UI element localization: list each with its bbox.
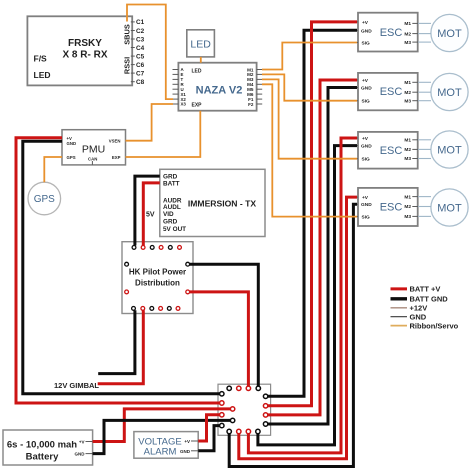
pin ticks NAZA left A,E,T,R,U,X1,X2,X3	[173, 70, 179, 105]
LED box	[187, 30, 215, 57]
svg-text:EXP: EXP	[192, 103, 203, 109]
wire ESC4 GND black to hub bottom	[229, 204, 357, 466]
svg-text:+V: +V	[362, 20, 369, 26]
svg-text:Distribution: Distribution	[135, 279, 180, 288]
wire voltage alarm +V red to hub	[198, 415, 220, 441]
pin CAN tick	[91, 161, 93, 165]
svg-text:M1: M1	[404, 80, 411, 86]
motor leads ESC4 to MOT4	[418, 197, 431, 217]
hub pads top row	[227, 386, 260, 390]
svg-text:C7: C7	[136, 70, 145, 77]
wire NAZA EXP orange to PMU EXP	[126, 111, 201, 157]
svg-text:F2: F2	[248, 102, 254, 107]
svg-text:C1: C1	[136, 19, 145, 26]
svg-text:GPS: GPS	[67, 155, 76, 160]
svg-text:GRD: GRD	[163, 218, 178, 225]
svg-text:GPS: GPS	[34, 194, 55, 205]
svg-text:ESC: ESC	[380, 202, 403, 214]
svg-text:+V: +V	[362, 136, 369, 142]
legend swatch +12V	[391, 307, 408, 309]
wire ESC4 +V red to hub bottom	[239, 197, 357, 459]
wire PMU VSEN orange to NAZA X3	[126, 104, 174, 141]
svg-text:GND: GND	[361, 144, 372, 150]
hub pads bottom row	[227, 429, 260, 433]
power management unit PMU	[62, 130, 126, 165]
wire SBUS orange FRSKY to NAZA X2	[127, 5, 173, 100]
svg-text:C2: C2	[136, 28, 145, 35]
wire ESC1 GND black to hub right	[268, 30, 357, 396]
wire voltage alarm GND black to hub	[198, 426, 220, 451]
svg-text:SIG: SIG	[362, 157, 371, 163]
svg-text:LED: LED	[192, 69, 202, 75]
svg-text:12V GIMBAL: 12V GIMBAL	[54, 381, 99, 390]
wire PMU GND black to hub left	[23, 141, 220, 393]
ESC 4	[358, 188, 418, 226]
wire ESC3 GND black to hub bottom	[258, 146, 357, 445]
svg-text:SBUS: SBUS	[123, 24, 132, 45]
hub pads inner left	[230, 407, 234, 423]
wire battery +V red to hub inner pin	[93, 409, 231, 442]
svg-text:ESC: ESC	[380, 27, 403, 39]
svg-text:ESC: ESC	[380, 86, 403, 98]
svg-text:VSEN: VSEN	[109, 139, 121, 144]
svg-text:C3: C3	[136, 36, 145, 43]
wire HK board black to 12V gimbal	[98, 310, 135, 373]
svg-text:VID: VID	[163, 211, 174, 218]
svg-text:Battery: Battery	[26, 452, 59, 463]
wire HK board red to 12V gimbal	[98, 310, 144, 383]
battery 6s 10000mah	[3, 430, 93, 465]
NAZA left pin labels	[181, 67, 187, 107]
svg-text:CAN: CAN	[88, 157, 97, 162]
pin ticks NAZA right M1-M6,F1,F2	[257, 70, 263, 105]
svg-text:+V: +V	[362, 195, 369, 201]
power hub block	[218, 384, 271, 435]
svg-text:SIG: SIG	[362, 215, 371, 221]
svg-text:M1: M1	[404, 21, 411, 27]
svg-text:M3: M3	[404, 98, 411, 104]
svg-text:+V: +V	[184, 439, 190, 444]
svg-text:BATT: BATT	[163, 180, 180, 187]
svg-text:C4: C4	[136, 45, 145, 52]
ESC 1	[358, 13, 418, 52]
svg-text:ESC: ESC	[380, 145, 403, 157]
motor MOT 1	[431, 14, 468, 51]
svg-text:MOT: MOT	[437, 203, 462, 215]
svg-text:MOT: MOT	[437, 145, 462, 157]
svg-text:FRSKY: FRSKY	[68, 38, 102, 49]
motor leads ESC3 to MOT3	[418, 140, 431, 159]
svg-text:+V: +V	[79, 440, 85, 445]
NAZA right pin labels	[247, 67, 254, 107]
svg-text:GND: GND	[67, 141, 77, 146]
legend swatch Ribbon/Servo	[391, 325, 408, 327]
ESC 2	[358, 73, 418, 110]
svg-text:SIG: SIG	[362, 40, 371, 46]
svg-text:IMMERSION - TX: IMMERSION - TX	[188, 199, 257, 209]
svg-text:C8: C8	[136, 79, 145, 86]
flight controller NAZA V2	[178, 63, 256, 111]
svg-text:5V: 5V	[146, 212, 155, 219]
svg-text:LED: LED	[190, 39, 211, 51]
wire PMU +V red to hub left	[16, 138, 220, 403]
HK board pads right	[186, 262, 190, 293]
hub pads left column	[220, 392, 224, 428]
receiver FRSKY X8R-RX	[27, 16, 132, 85]
wire battery GND black to hub inner pin	[93, 420, 231, 453]
svg-text:F/S: F/S	[34, 54, 48, 64]
svg-text:SIG: SIG	[362, 99, 371, 105]
svg-text:M2: M2	[404, 147, 411, 153]
wire NAZA M3 orange to ESC3 SIG	[262, 79, 357, 158]
HK board pads bottom row	[132, 307, 180, 311]
svg-text:M3: M3	[404, 40, 411, 46]
motor MOT 3	[431, 131, 468, 168]
svg-text:GND: GND	[410, 312, 427, 321]
svg-text:6s - 10,000 mah: 6s - 10,000 mah	[7, 440, 77, 451]
wire NAZA M4 orange to ESC4 SIG	[262, 84, 357, 216]
svg-text:HK Pilot Power: HK Pilot Power	[129, 268, 186, 277]
svg-text:RSSI: RSSI	[123, 57, 132, 74]
ESC 3	[358, 132, 418, 169]
motor leads ESC2 to MOT2	[418, 82, 431, 100]
HK Pilot power distribution board	[122, 242, 193, 314]
wire immersion BATT red to HK board	[143, 183, 160, 246]
GPS module	[28, 182, 61, 215]
svg-text:M1: M1	[404, 194, 411, 200]
svg-text:M1: M1	[404, 138, 411, 144]
svg-text:LED: LED	[34, 70, 51, 80]
svg-text:ALARM: ALARM	[144, 447, 177, 458]
svg-text:X 8 R- RX: X 8 R- RX	[62, 50, 107, 61]
wire HK board GND black to hub top	[190, 264, 259, 386]
svg-text:MOT: MOT	[437, 28, 462, 40]
svg-text:M2: M2	[404, 90, 411, 96]
pin ticks ESC left/right	[353, 22, 419, 217]
wire PMU GPS orange to GPS module	[44, 157, 62, 182]
wire ESC2 +V red to hub right	[268, 80, 357, 415]
svg-text:GND: GND	[180, 449, 191, 454]
svg-text:M3: M3	[404, 156, 411, 162]
svg-text:EXP: EXP	[112, 155, 121, 160]
channel labels C1-C8	[136, 19, 145, 86]
svg-text:M2: M2	[404, 204, 411, 210]
motor MOT 4	[431, 189, 468, 226]
wire ESC3 +V red to hub bottom	[248, 138, 357, 453]
svg-text:X3: X3	[181, 102, 187, 107]
wire LED orange to NAZA	[200, 57, 202, 63]
svg-text:BATT +V: BATT +V	[410, 285, 441, 294]
wire ESC2 GND black to hub right	[268, 88, 357, 425]
hub pads right column	[263, 394, 267, 426]
voltage alarm	[134, 432, 198, 459]
motor MOT 2	[431, 73, 468, 110]
svg-text:GND: GND	[361, 86, 372, 92]
svg-text:C5: C5	[136, 53, 145, 60]
HK board pads left	[125, 262, 129, 293]
svg-text:GND: GND	[75, 452, 86, 457]
HK board pads top row	[132, 246, 181, 250]
svg-text:+12V: +12V	[410, 304, 428, 313]
legend swatch BATT +V	[391, 287, 408, 290]
svg-text:BATT GND: BATT GND	[410, 295, 449, 304]
pin ticks FRSKY channels C1-C8	[131, 22, 135, 82]
svg-text:AUDL: AUDL	[163, 204, 181, 211]
wire ESC1 +V red to hub right	[268, 22, 357, 406]
svg-text:M3: M3	[404, 214, 411, 220]
svg-text:C6: C6	[136, 62, 145, 69]
wire immersion GRD black to HK board	[135, 176, 160, 245]
legend swatch GND	[391, 316, 408, 318]
svg-text:M2: M2	[404, 31, 411, 37]
legend swatch BATT GND	[391, 297, 408, 300]
svg-text:Ribbon/Servo: Ribbon/Servo	[410, 321, 459, 330]
motor leads ESC1 to MOT1	[418, 23, 431, 42]
svg-text:GND: GND	[361, 28, 372, 34]
video transmitter IMMERSION-TX	[160, 169, 265, 236]
svg-text:PMU: PMU	[82, 144, 105, 156]
svg-text:NAZA V2: NAZA V2	[196, 85, 243, 97]
svg-text:+V: +V	[362, 78, 369, 84]
wire NAZA M2 orange to ESC2 SIG	[262, 74, 357, 100]
svg-text:GND: GND	[361, 202, 372, 208]
svg-text:5V OUT: 5V OUT	[163, 226, 186, 233]
wire HK board +V red to hub top	[190, 292, 249, 386]
svg-text:MOT: MOT	[437, 87, 462, 99]
wire NAZA M1 orange to ESC1 SIG	[262, 43, 357, 70]
